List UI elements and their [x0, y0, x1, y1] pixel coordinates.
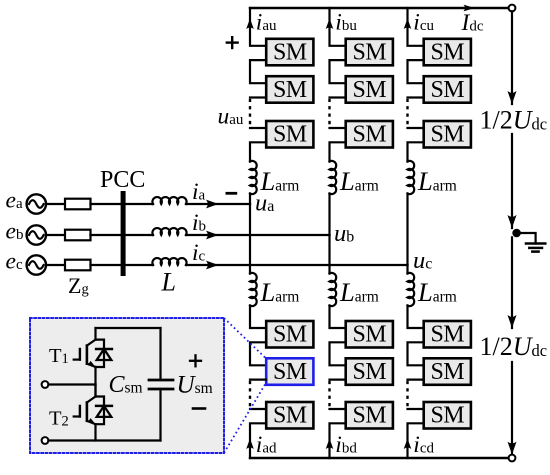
wire link SM Da1 to Da2: [250, 342, 266, 365]
wire stub SM Ub3 top: [330, 127, 346, 129]
label Larm lower phase a: [260, 277, 300, 307]
impedance Zg phase a: [65, 199, 91, 210]
wire stub SM Ua3 top: [250, 127, 266, 129]
dotted omitted submodules lower arm phase a: [249, 380, 251, 409]
label ec: [6, 248, 23, 274]
SM submodule Da1 lower arm: [266, 321, 313, 348]
zoom leader line bottom (inset to highlighted SM): [224, 385, 265, 454]
SM submodule Da2 lower arm (highlighted): [266, 358, 313, 385]
wire L to node ua: [186, 200, 250, 209]
zoom leader line top (inset to highlighted SM): [224, 318, 265, 358]
label icd: [413, 432, 434, 458]
wire upper terminal to midpoint: [48, 383, 95, 385]
SM submodule Db3 lower arm: [346, 402, 393, 429]
inductor Larm lower phase b: [330, 273, 337, 306]
label PCC: [100, 167, 145, 193]
dotted omitted submodules upper arm phase b: [328, 98, 330, 129]
wire lower Larm to SM chain phase b: [330, 306, 346, 329]
wire stub SM Da2 bottom: [250, 379, 266, 381]
wire L to node ub: [186, 231, 330, 240]
label Larm lower phase c: [417, 277, 457, 307]
dotted omitted submodules upper arm phase c: [406, 98, 408, 129]
label T1: [49, 345, 69, 367]
negative DC terminal node: [509, 455, 516, 462]
terminal node upper (inset): [42, 381, 49, 388]
svg-text:SM: SM: [353, 403, 387, 429]
wire node ua to lower arm: [249, 204, 251, 274]
label ic: [192, 240, 206, 266]
SM submodule Da3 lower arm: [266, 402, 313, 429]
wire dc rail upper segment B with voltage arrow: [508, 134, 517, 228]
wire node ub to lower arm: [328, 235, 330, 274]
label eb: [6, 218, 24, 244]
label iad: [256, 432, 277, 458]
svg-text:SM: SM: [353, 359, 387, 385]
plus terminal label: [227, 37, 238, 48]
wire SM Ua3 to arm inductor: [250, 142, 266, 161]
SM submodule Ub1 upper arm: [346, 39, 393, 66]
wire top rail: [96, 327, 161, 329]
svg-text:SM: SM: [273, 359, 307, 385]
wire Zg to PCC phase c: [91, 264, 122, 266]
svg-text:SM: SM: [431, 403, 465, 429]
inductor L phase a: [152, 197, 186, 204]
label + for Usm: [190, 355, 201, 366]
transistor T2 with diode: [74, 385, 112, 425]
wire top bus to upper SM chain phase a with arrow iau: [246, 8, 266, 46]
wire SM Da3 to bottom bus with arrow iad: [246, 423, 266, 458]
inset box SM detail: [30, 318, 224, 453]
SM submodule Dc2 lower arm: [424, 358, 471, 385]
svg-text:L: L: [161, 268, 176, 297]
label ibd: [335, 432, 357, 458]
wire stub SM Ua2 bottom: [250, 96, 266, 98]
wire link SM Ub1 to Ub2: [330, 60, 346, 83]
wire stub SM Dc3 top: [408, 408, 424, 410]
label 1/2Udc upper: [480, 106, 548, 135]
midpoint junction dot: [512, 229, 521, 238]
wire SM Dc3 to bottom bus with arrow icd: [404, 423, 424, 458]
label ibu: [335, 10, 357, 36]
SM submodule Dc3 lower arm: [424, 402, 471, 429]
wire dc rail lower segment D with voltage arrow: [508, 362, 517, 455]
wire PCC to inductor L phase b: [123, 234, 153, 236]
label iau: [256, 10, 277, 36]
wire stub SM Ub2 bottom: [330, 96, 346, 98]
wire stub SM Dc2 bottom: [408, 379, 424, 381]
bottom DC bus wire: [250, 457, 512, 459]
dotted omitted submodules upper arm phase a: [249, 98, 251, 129]
inductor Larm lower phase a: [250, 273, 257, 306]
wire Zg to PCC phase b: [91, 234, 122, 236]
impedance Zg phase b: [65, 230, 91, 241]
wire source ec to Zg: [46, 264, 65, 266]
wire T1 emitter to midpoint junction: [94, 367, 96, 397]
SM submodule Uc3 upper arm: [424, 121, 471, 148]
inductor L phase b: [152, 228, 186, 235]
wire link SM Db1 to Db2: [330, 342, 346, 365]
svg-text:SM: SM: [273, 403, 307, 429]
SM submodule Ub3 upper arm: [346, 121, 393, 148]
inductor Larm upper phase a: [250, 161, 257, 194]
wire stub SM Uc2 bottom: [408, 96, 424, 98]
inductor Larm lower phase c: [408, 273, 415, 306]
SM submodule Ua3 upper arm: [266, 121, 313, 148]
wire dc rail upper segment A with voltage arrow: [508, 11, 517, 104]
label uau arm voltage: [218, 104, 244, 130]
wire stub SM Db3 top: [330, 408, 346, 410]
SM submodule Ua1 upper arm: [266, 39, 313, 66]
svg-text:SM: SM: [431, 39, 465, 65]
SM submodule Ub2 upper arm: [346, 76, 393, 103]
wire SM Db3 to bottom bus with arrow ibd: [326, 423, 346, 458]
wire node uc to lower arm: [406, 265, 408, 274]
node uc label: [413, 247, 432, 274]
wire SM Ub3 to arm inductor: [330, 142, 346, 161]
positive DC terminal node: [509, 5, 516, 12]
SM submodule Uc1 upper arm: [424, 39, 471, 66]
label icu: [413, 10, 434, 36]
source eb: [27, 225, 46, 244]
svg-text:SM: SM: [353, 39, 387, 65]
node ua label: [255, 190, 274, 217]
inductor Larm upper phase c: [408, 161, 415, 194]
label - for Usm: [193, 407, 205, 410]
label ia: [192, 179, 206, 205]
wire top bus to upper SM chain phase c with arrow icu: [404, 8, 424, 46]
terminal node lower (inset): [42, 437, 49, 444]
label ea: [6, 187, 23, 213]
top DC bus wire: [250, 5, 512, 12]
wire stub SM Uc3 top: [408, 127, 424, 129]
minus label at node ua: [227, 192, 236, 195]
SM submodule Ua2 upper arm: [266, 76, 313, 103]
wire link SM Ua1 to Ua2: [250, 60, 266, 83]
wire Larm to node ua: [249, 194, 251, 205]
wire lower Larm to SM chain phase a: [250, 306, 266, 329]
wire dc rail lower segment C with voltage arrow: [508, 237, 517, 328]
svg-text:SM: SM: [273, 122, 307, 148]
wire source ea to Zg: [46, 203, 65, 205]
wire stub SM Da3 top: [250, 408, 266, 410]
ground: [521, 233, 545, 252]
svg-text:SM: SM: [273, 39, 307, 65]
wire T2 emitter to bottom rail: [94, 424, 96, 440]
wire lower Larm to SM chain phase c: [408, 306, 424, 329]
svg-text:SM: SM: [273, 77, 307, 103]
inductor L phase c: [152, 258, 186, 265]
transistor T1 with diode: [74, 328, 112, 367]
label Zg: [68, 273, 89, 298]
wire stub SM Db2 bottom: [330, 379, 346, 381]
SM submodule Uc2 upper arm: [424, 76, 471, 103]
label Larm upper phase a: [260, 166, 300, 196]
dotted omitted submodules lower arm phase b: [328, 380, 330, 409]
wire link SM Uc1 to Uc2: [408, 60, 424, 83]
label ib: [192, 210, 206, 236]
wire top bus to upper SM chain phase b with arrow ibu: [326, 8, 346, 46]
wire Larm to node uc: [406, 194, 408, 266]
SM submodule Db1 lower arm: [346, 321, 393, 348]
source ea: [27, 194, 46, 213]
source ec: [27, 255, 46, 274]
dotted omitted submodules lower arm phase c: [406, 380, 408, 409]
label Larm lower phase b: [339, 277, 379, 307]
label Larm upper phase c: [417, 166, 457, 196]
label L: [161, 268, 176, 297]
wire source eb to Zg: [46, 234, 65, 236]
label Csm: [109, 372, 143, 398]
svg-text:SM: SM: [431, 322, 465, 348]
capacitor Csm: [149, 328, 173, 441]
node ub label: [334, 220, 354, 247]
svg-text:SM: SM: [353, 77, 387, 103]
svg-text:SM: SM: [353, 322, 387, 348]
label Larm upper phase b: [339, 166, 379, 196]
wire PCC to inductor L phase c: [123, 264, 153, 266]
inductor Larm upper phase b: [330, 161, 337, 194]
svg-text:SM: SM: [431, 77, 465, 103]
wire L to node uc: [186, 261, 408, 270]
label Idc: [461, 10, 484, 36]
svg-text:SM: SM: [353, 122, 387, 148]
label Usm: [177, 372, 213, 399]
PCC bus bar: [121, 191, 126, 276]
svg-text:SM: SM: [273, 322, 307, 348]
wire SM Uc3 to arm inductor: [408, 142, 424, 161]
wire Zg to PCC phase a: [91, 203, 122, 205]
svg-text:SM: SM: [431, 359, 465, 385]
label 1/2Udc lower: [480, 332, 548, 361]
wire Larm to node ub: [328, 194, 330, 236]
svg-text:SM: SM: [431, 122, 465, 148]
SM submodule Dc1 lower arm: [424, 321, 471, 348]
wire lower rail: [48, 439, 160, 441]
SM submodule Db2 lower arm: [346, 358, 393, 385]
wire PCC to inductor L phase a: [123, 203, 153, 205]
svg-text:PCC: PCC: [100, 167, 145, 193]
label T2: [49, 408, 69, 430]
wire link SM Dc1 to Dc2: [408, 342, 424, 365]
impedance Zg phase c: [65, 260, 91, 271]
